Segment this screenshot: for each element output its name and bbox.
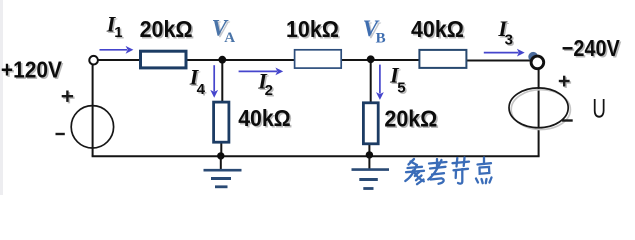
node label V_A <box>212 16 236 46</box>
junction dot bottom of R4 <box>217 152 224 159</box>
terminal left (open circle) <box>89 56 98 65</box>
char can <box>409 159 415 165</box>
value label 20k ohm (R5) <box>384 106 439 134</box>
junction dot bottom of R5 <box>366 151 373 158</box>
label I4 <box>189 65 207 100</box>
wire R5 to bottom rail <box>368 145 370 157</box>
node B junction dot <box>367 55 375 63</box>
svg-text:U: U <box>592 94 606 124</box>
wire node B to R5 <box>370 59 372 102</box>
svg-text:−240V: −240V <box>562 35 621 61</box>
value label 10k ohm (R2) <box>286 16 341 43</box>
blue dot behind right terminal <box>528 52 538 62</box>
current arrow I1 <box>100 46 134 54</box>
value label 40k ohm (R3) <box>411 16 466 43</box>
current arrow I2 <box>239 68 284 76</box>
value label 40k ohm (R4) <box>238 105 292 132</box>
polarity plus of U2 <box>559 76 571 88</box>
svg-text:40kΩ: 40kΩ <box>411 16 464 42</box>
wire top rail: left terminal to R1 <box>98 59 140 61</box>
resistor R5 20k ohm box (vertical) <box>363 103 378 144</box>
svg-text:2: 2 <box>265 82 273 99</box>
polarity minus of V1 <box>56 133 65 135</box>
wire right branch vertical <box>538 69 540 157</box>
wire R4 to bottom rail <box>220 143 222 156</box>
node label V_B <box>363 16 386 46</box>
label I3 <box>497 16 514 50</box>
wire node A to R4 <box>221 60 223 102</box>
node A junction dot <box>218 56 226 64</box>
svg-text:B: B <box>376 31 386 47</box>
ground symbol at node A bottom <box>204 156 242 187</box>
char kao <box>436 159 438 166</box>
svg-text:1: 1 <box>114 24 122 41</box>
svg-text:20kΩ: 20kΩ <box>384 106 437 132</box>
annotation reference node (Chinese calligraphy, hand drawn) <box>405 158 491 185</box>
wire bottom rail <box>92 155 540 157</box>
value label 20k ohm (R1) <box>140 16 195 43</box>
svg-text:4: 4 <box>197 81 206 98</box>
resistor R1 20k ohm box <box>141 51 187 68</box>
polarity plus of V1 <box>62 91 75 104</box>
svg-text:20kΩ: 20kΩ <box>140 16 193 42</box>
terminal right (open circle) <box>531 56 544 69</box>
polarity minus of U2 <box>562 119 573 121</box>
label I5 <box>389 63 407 99</box>
source value label +120V <box>1 56 64 84</box>
char jie <box>453 162 470 164</box>
resistor R2 10k ohm box <box>295 50 342 68</box>
label I1 <box>106 12 124 43</box>
wire top rail: R1 to R2 through node A <box>187 59 295 61</box>
source value label -240V <box>562 35 622 63</box>
voltage source U2 -240V ellipse <box>509 88 568 128</box>
char dian <box>483 158 485 165</box>
label I2 <box>257 68 274 100</box>
wire top rail: R2 to R3 through node B <box>342 59 420 61</box>
svg-text:5: 5 <box>397 80 405 97</box>
current arrow I5 (downward) <box>376 65 384 100</box>
voltage source U2 -240V ellipse shadow <box>511 90 570 130</box>
resistor R4 40k ohm box (vertical) <box>214 102 229 142</box>
svg-text:10kΩ: 10kΩ <box>286 16 339 42</box>
wire top rail: R3 to right terminal <box>467 60 532 62</box>
voltage source V1 +120V circle <box>71 106 113 148</box>
current arrow I4 (downward) <box>210 65 218 98</box>
current arrow I3 <box>484 49 525 57</box>
svg-text:40kΩ: 40kΩ <box>238 105 291 131</box>
wire left branch vertical <box>92 64 94 156</box>
ground symbol at node B bottom (reference node) <box>352 155 390 189</box>
svg-text:+120V: +120V <box>1 56 63 82</box>
resistor R3 40k ohm box (top) <box>419 50 466 68</box>
svg-text:A: A <box>224 30 235 46</box>
svg-text:3: 3 <box>505 31 513 48</box>
